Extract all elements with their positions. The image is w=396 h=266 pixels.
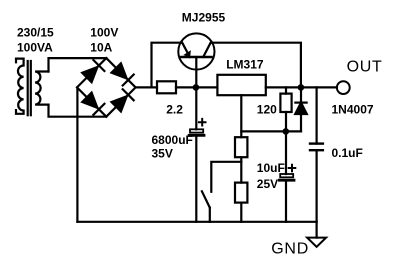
svg-text:GND: GND [271,240,309,257]
switch SW1 tap wire [211,162,241,192]
terminal OUT [337,81,350,94]
resistor R1 2.2 [157,81,176,93]
capacitor C1 6800uF [189,119,205,135]
transistor Q1 MJ2955 [178,33,214,87]
svg-text:25V: 25V [257,177,278,191]
svg-text:0.1uF: 0.1uF [332,146,363,160]
ground symbol [307,222,326,247]
wire 120 bottom to adj node [285,112,287,131]
diode D5 1N4007 [295,87,307,131]
switch SW1 blade [202,191,210,207]
bridge diode D-TL [82,60,104,82]
bridge diode D-TR [112,63,134,85]
wire node IN down to C1 and ground [195,87,197,221]
wire bridge minus to ground rail [76,87,78,221]
svg-text:100V: 100V [90,26,118,40]
wire LM317 out to terminal [266,86,337,88]
bridge diode D-BR [112,89,134,111]
svg-text:230/15: 230/15 [17,26,54,40]
wire adj node to C2 and ground [285,131,287,221]
wire AC bottom: secondary bottom to bridge bottom corner [49,105,107,117]
wire adj node horizontal [241,130,301,132]
wire C3 to ground rail [316,150,318,222]
resistor R3 (adj lower) [235,183,247,203]
svg-text:LM317: LM317 [226,57,264,71]
ground rail wire [77,221,316,223]
transformer T1 [16,59,49,116]
switch SW1 bottom stub [209,208,211,222]
wire collector to output node [212,43,301,88]
regulator U1 LM317 body [217,75,265,95]
wire emitter riser [152,43,182,88]
resistor R2 (adj upper) [235,137,247,157]
resistor R4 120 [280,94,291,112]
wire R1 to node IN [176,86,217,88]
svg-text:OUT: OUT [347,59,383,76]
bridge rectifier BR1 outline [77,58,136,117]
svg-text:35V: 35V [152,147,173,161]
wire 120 top to rail [285,87,287,93]
bridge diode D-BL [82,93,104,115]
svg-text:1N4007: 1N4007 [332,103,374,117]
svg-text:120: 120 [257,102,277,116]
svg-text:10uF: 10uF [257,161,285,175]
node OUT junction dot [298,84,305,91]
svg-text:100VA: 100VA [17,40,53,54]
wire output rail to C3 [316,87,318,143]
node IN junction dot [193,84,200,91]
wire bridge plus to resistor R1 [136,86,157,88]
wire between R2 and R3 [240,157,242,182]
capacitor C3 0.1uF [310,144,323,151]
node ADJ junction dot [283,128,290,135]
svg-text:6800uF: 6800uF [152,133,193,147]
wire R3 to ground rail [240,203,242,222]
capacitor C2 10uF [279,165,295,181]
wire LM317 adj down [240,95,242,137]
svg-text:MJ2955: MJ2955 [182,10,226,24]
svg-text:10A: 10A [90,40,112,54]
wire AC top: secondary top to bridge top corner [49,58,107,71]
svg-text:2.2: 2.2 [166,102,183,116]
